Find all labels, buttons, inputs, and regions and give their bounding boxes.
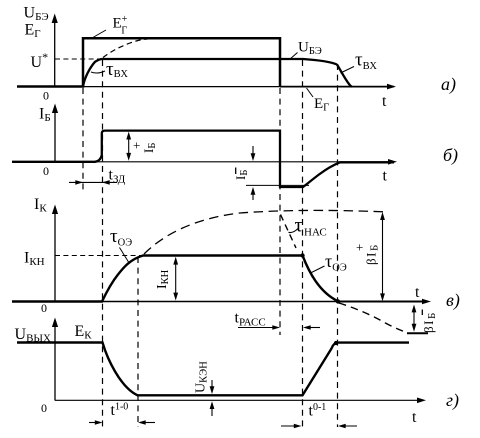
svg-text:+: + <box>356 240 363 255</box>
axis T row a <box>55 84 396 90</box>
U* dashed level <box>55 58 102 60</box>
leader tau_NAS <box>289 229 299 233</box>
U_BE rise curve <box>83 59 102 87</box>
I_K zero tail <box>338 301 423 303</box>
I_K waveform <box>12 256 338 302</box>
dashed vertical x=302.5 <box>302 60 304 427</box>
label beta I_B minus <box>421 310 423 316</box>
junction dot saturation end <box>300 253 304 257</box>
U_out waveform <box>17 343 409 396</box>
svg-text:0: 0 <box>43 164 49 178</box>
axis Y row v <box>52 205 58 302</box>
dashed charge curve to E_G+ <box>103 39 154 58</box>
svg-text:б): б) <box>443 145 458 166</box>
beta I_B minus dimension arrow <box>412 305 417 332</box>
t_RASS dimension arrows <box>238 325 320 330</box>
dashed vertical x=102.5 <box>102 60 104 427</box>
U_KEN dimension arrows <box>210 380 215 416</box>
I_KN dashed level <box>55 255 143 257</box>
leader E_G+ <box>92 30 106 38</box>
svg-text:t: t <box>383 168 388 185</box>
axis T row b <box>55 159 397 165</box>
axis Y row g <box>52 318 58 401</box>
U_BE fall curve <box>337 65 352 87</box>
leader E_G right <box>307 88 314 97</box>
U_BE level <box>102 59 337 65</box>
axis T row v <box>55 299 431 305</box>
svg-text:+: + <box>133 138 140 153</box>
axis Y row b <box>52 104 58 163</box>
dashed vertical x=83 <box>82 88 84 190</box>
svg-text:t: t <box>412 409 417 426</box>
label -I_B <box>235 168 237 175</box>
E_G pulse waveform <box>17 38 280 86</box>
beta I_B minus tick <box>407 332 428 334</box>
dashed saturation-drive curve <box>144 210 383 254</box>
svg-text:а): а) <box>441 74 456 95</box>
dashed steep turn-off segment <box>281 215 297 249</box>
label U_KEN rotated <box>194 361 210 393</box>
label I_KN rotated <box>155 269 171 289</box>
dashed vertical x=138 <box>137 257 139 427</box>
I_B waveform <box>12 131 394 187</box>
svg-text:0: 0 <box>41 401 47 415</box>
junction dot fall end <box>336 299 340 303</box>
leader tau_OE left <box>120 248 129 263</box>
t_0-1 dimension arrows <box>281 424 357 429</box>
svg-text:0: 0 <box>43 89 49 103</box>
dashed negative decay curve <box>339 303 404 332</box>
+beta I_B dimension arrow <box>380 212 385 301</box>
+I_B dimension arrow <box>126 132 131 161</box>
svg-text:t: t <box>382 93 387 110</box>
leader tau_BX left <box>91 71 105 73</box>
I_KN dimension arrow <box>173 257 178 301</box>
leader tau_OE right <box>311 266 325 273</box>
svg-text:t: t <box>415 284 420 301</box>
dashed vertical x=337.5 <box>337 64 339 427</box>
svg-text:г): г) <box>446 390 459 411</box>
axis Y row a <box>52 14 58 88</box>
svg-text:0: 0 <box>41 301 47 315</box>
axis T row g <box>55 398 426 404</box>
leader U_BE right <box>290 53 298 60</box>
t_1-0 dimension arrows <box>89 420 155 425</box>
dashed vertical x=280 <box>279 88 281 335</box>
svg-text:в): в) <box>446 290 460 311</box>
leader tau_BX right <box>341 67 355 74</box>
-I_B dimension arrows <box>251 146 256 200</box>
junction dot rise end <box>334 341 338 345</box>
I_B minus ref line <box>246 184 309 186</box>
t_ZD dimension arrows <box>69 180 117 185</box>
